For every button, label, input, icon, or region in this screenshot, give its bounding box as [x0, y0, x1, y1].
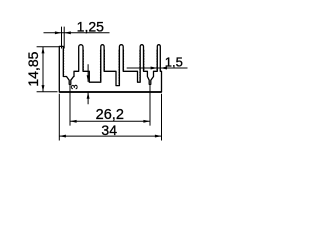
- fin4 serration L: [118, 50, 120, 85]
- fin5 serration L: [139, 50, 141, 82]
- fin2 serration: [82, 50, 84, 71]
- fin5 serration R: [143, 50, 145, 71]
- fin4 serration R: [122, 50, 124, 71]
- arrows 3: [87, 75, 90, 82]
- svg-text:26,2: 26,2: [96, 107, 124, 123]
- arrows 26,2: [70, 120, 77, 123]
- dim 14,85 extension lines: [37, 47, 60, 92]
- dim 34 dimension line: [59, 135, 161, 137]
- dim 1,25 extension lines: [62, 27, 65, 49]
- svg-text:3: 3: [69, 84, 79, 89]
- dim 1,5 dimension line: [127, 67, 188, 69]
- dim 26,2 dimension line: [70, 120, 150, 122]
- svg-text:1,5: 1,5: [165, 55, 183, 70]
- arrows 14,85: [42, 47, 45, 54]
- arrows 34: [59, 135, 66, 138]
- dim 1,25 dimension line: [44, 32, 110, 34]
- svg-text:14,85: 14,85: [25, 51, 41, 86]
- fin3 serration R: [103, 50, 105, 71]
- dim 26,2 extension lines: [70, 85, 150, 125]
- fin1 serration: [62, 49, 64, 76]
- dim 14,85 dimension line: [42, 47, 44, 92]
- heatsink profile outline: [59, 91, 161, 93]
- svg-text:34: 34: [101, 122, 117, 138]
- arrows 1,25: [55, 31, 62, 34]
- fin3 serration L: [99, 50, 101, 82]
- arrows 1,5: [151, 67, 158, 70]
- fin6 serration L: [156, 50, 158, 71]
- dim 34 extension lines: [59, 94, 161, 141]
- svg-text:1,25: 1,25: [77, 18, 104, 34]
- dim 3 dimension lines: [87, 64, 89, 104]
